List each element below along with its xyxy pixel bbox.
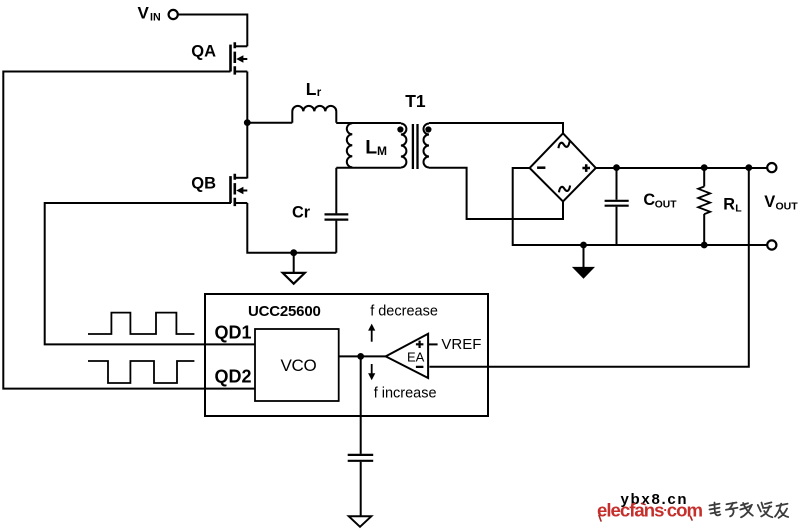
svg-text:EA: EA (407, 350, 425, 365)
svg-text:M: M (377, 144, 387, 158)
svg-text:OUT: OUT (655, 199, 677, 210)
svg-text:L: L (306, 79, 317, 99)
svg-text:IN: IN (150, 11, 161, 23)
svg-text:VREF: VREF (441, 336, 481, 353)
svg-text:UCC25600: UCC25600 (248, 303, 321, 320)
svg-text:T1: T1 (405, 91, 426, 111)
svg-text:R: R (723, 195, 735, 213)
svg-text:f decrease: f decrease (370, 303, 438, 319)
svg-text:OUT: OUT (776, 201, 799, 213)
svg-text:V: V (138, 3, 150, 22)
svg-text:L: L (365, 137, 377, 159)
svg-text:QB: QB (191, 174, 216, 192)
svg-text:C: C (643, 191, 655, 209)
svg-text:r: r (317, 87, 322, 99)
svg-text:VCO: VCO (281, 356, 317, 375)
svg-text:QD2: QD2 (215, 366, 252, 386)
svg-text:Cr: Cr (292, 204, 311, 222)
svg-text:f increase: f increase (374, 385, 437, 401)
svg-text:QA: QA (191, 42, 216, 60)
svg-text:V: V (764, 193, 775, 211)
svg-text:QD1: QD1 (215, 322, 252, 342)
svg-text:elecfans·com: elecfans·com (597, 499, 702, 520)
svg-text:L: L (735, 203, 742, 215)
